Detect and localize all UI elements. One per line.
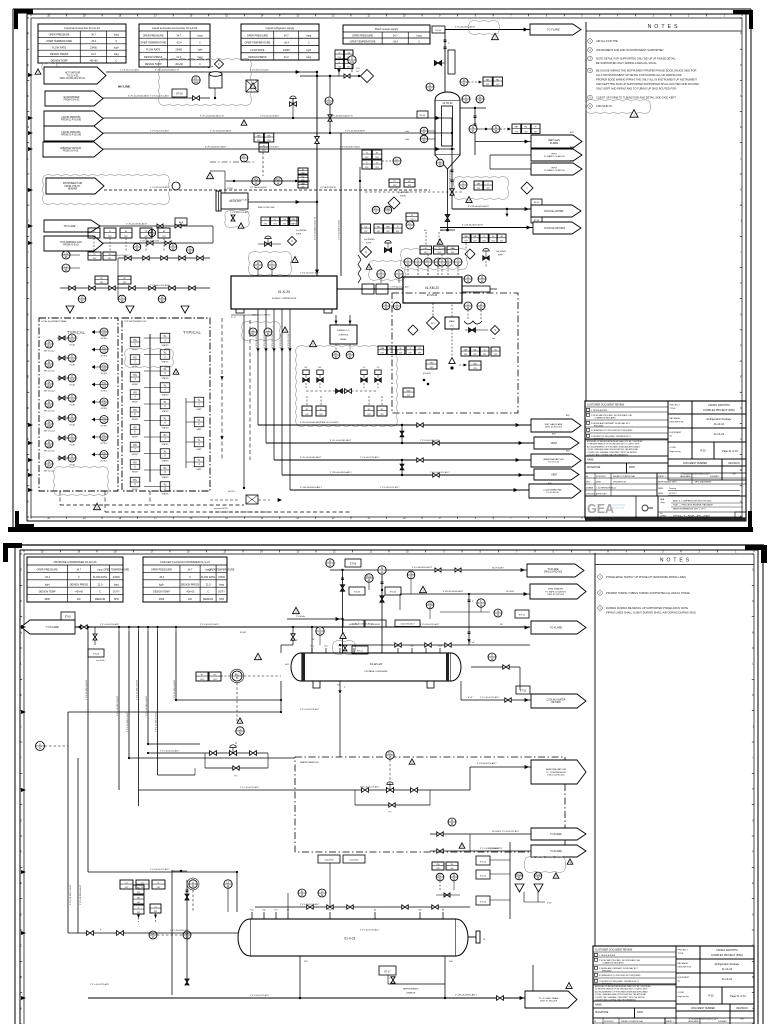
page 2 corner mark top-left	[3, 543, 22, 548]
svg-text:-33.4: -33.4	[283, 42, 289, 45]
mid right cluster page2 boxes	[432, 862, 460, 897]
svg-text:LOCAL: LOCAL	[69, 404, 75, 407]
svg-text:DESIGN TEMP: DESIGN TEMP	[39, 591, 56, 594]
panel output circles	[332, 351, 354, 359]
svg-text:ET-16: ET-16	[480, 901, 487, 903]
vent drop left page2	[88, 627, 106, 662]
frame coordinate ticks top	[31, 14, 742, 18]
svg-text:LAMP: LAMP	[197, 468, 203, 471]
name row	[585, 456, 668, 463]
instrument PT centre top	[192, 76, 200, 84]
table flash vessel data	[343, 25, 430, 44]
scattered line labels page2	[90, 623, 520, 997]
svg-text:EMERG. LO: EMERG. LO	[337, 330, 349, 332]
svg-text:M: M	[740, 127, 742, 129]
bundle taps	[87, 626, 177, 631]
mid right triangles page2	[459, 843, 465, 849]
svg-text:TO 01-V-21: TO 01-V-21	[548, 462, 560, 464]
anti-surge circle FY	[406, 221, 414, 229]
svg-text:APPROVED: APPROVED	[596, 493, 607, 496]
svg-text:ISSUED FOR APPROVAL: ISSUED FOR APPROVAL	[621, 1020, 643, 1023]
control valve station 1	[205, 745, 268, 778]
MM box	[459, 361, 481, 370]
svg-text:SET 4.5 barg: SET 4.5 barg	[44, 351, 55, 353]
svg-text:Engineering: Engineering	[678, 995, 690, 998]
svg-text:MEDIUM: MEDIUM	[95, 598, 105, 601]
bottom drain header	[88, 872, 525, 1000]
svg-text:PG: PG	[102, 329, 106, 332]
flare top line	[445, 26, 530, 32]
svg-text:2"x3": 2"x3"	[470, 642, 475, 644]
inlet arrow hot vapour	[44, 67, 106, 84]
svg-text:21.0: 21.0	[91, 53, 96, 56]
svg-text:TO FLARE: TO FLARE	[550, 850, 562, 853]
svg-text:PG: PG	[102, 364, 106, 367]
suction instrument cloud	[249, 252, 292, 276]
trip triangle	[449, 329, 455, 370]
outlet arrow flare header end page2	[500, 621, 586, 634]
typical box 1 gauge column B	[57, 334, 76, 467]
vent arrow 2	[531, 163, 582, 175]
svg-text:TI: TI	[71, 455, 74, 458]
svg-text:K03: K03	[304, 961, 307, 963]
svg-text:COMPLEX PROJECT (BSU): COMPLEX PROJECT (BSU)	[703, 409, 735, 412]
svg-text:C: C	[78, 576, 80, 579]
svg-text:RESET: RESET	[132, 489, 139, 491]
svg-text:J: J	[740, 221, 741, 223]
svg-text:NOTE 4: NOTE 4	[101, 443, 108, 445]
svg-text:-33.4: -33.4	[44, 576, 50, 579]
equipment no cell	[676, 973, 754, 987]
left manifold row 2	[60, 286, 210, 303]
svg-text:K05: K05	[337, 685, 340, 687]
svg-text:ET-12: ET-12	[519, 615, 526, 617]
svg-text:-40/+60: -40/+60	[175, 63, 184, 66]
page 1 drawing frame outer	[27, 14, 746, 521]
xv dark boxes row	[88, 228, 170, 252]
svg-text:PG: PG	[102, 382, 106, 385]
vessel bottom drain valves	[436, 159, 455, 231]
shaft line	[337, 284, 403, 294]
svg-text:ET-04: ET-04	[420, 115, 426, 117]
svg-text:SET 4.5 barg: SET 4.5 barg	[44, 411, 55, 413]
svg-text:TI: TI	[462, 182, 465, 185]
name row	[593, 1001, 676, 1008]
svg-text:4 PERMISSION TO PROCEED NOT: 4 PERMISSION TO PROCEED NOT REQUIRED	[599, 975, 641, 977]
svg-text:xx-xx-xxx NOTE: xx-xx-xxx NOTE	[214, 508, 228, 510]
notes item 3	[588, 56, 676, 65]
svg-text:2"-PL-40-00148-A51T: 2"-PL-40-00148-A51T	[79, 884, 82, 905]
PI circle left of vessel	[426, 83, 434, 91]
lines into flare arrows	[448, 140, 532, 169]
svg-text:HS: HS	[133, 409, 137, 412]
separator drum 01-FL-03	[216, 188, 248, 211]
outlet arrow top flare	[530, 24, 581, 35]
inlet arrow hot gas	[44, 236, 103, 251]
svg-text:TI: TI	[491, 654, 494, 657]
svg-text:VENT: VENT	[551, 473, 558, 476]
vent arrow 1	[531, 149, 582, 161]
svg-text:DUTY: DUTY	[113, 591, 120, 594]
svg-text:2"-PV-40-00121-A51T: 2"-PV-40-00121-A51T	[430, 471, 450, 474]
svg-text:FROM 01-V-03: FROM 01-V-03	[63, 151, 79, 153]
svg-text:-40/+60: -40/+60	[186, 591, 195, 594]
control valve station 2	[355, 782, 430, 814]
svg-text:Drawing: Drawing	[669, 487, 676, 490]
svg-text:2"-PV-40-00122-A51T: 2"-PV-40-00122-A51T	[380, 486, 400, 489]
svg-text:21.0: 21.0	[284, 56, 289, 59]
review paragraph	[585, 439, 668, 457]
notes page2 item 3	[598, 606, 696, 615]
revision cloud centre top	[159, 59, 252, 106]
svg-text:DATE: DATE	[629, 466, 635, 469]
svg-text:3"-PL-40-00216-A51T: 3"-PL-40-00216-A51T	[360, 786, 380, 789]
package description cell	[676, 959, 754, 973]
table propane condenser data	[27, 557, 123, 602]
svg-text:TO SAFE LOCATION: TO SAFE LOCATION	[544, 169, 565, 172]
page 1 corner mark top-right	[733, 10, 753, 15]
typical box 1 border	[39, 318, 118, 491]
left manifold row 1	[118, 243, 210, 300]
svg-text:2"-DR-40-00164-A51T: 2"-DR-40-00164-A51T	[300, 486, 322, 489]
svg-text:barg: barg	[114, 34, 120, 37]
recycle control valve dark	[384, 240, 391, 252]
svg-text:3"-PL-40-00211-A51T: 3"-PL-40-00211-A51T	[200, 623, 220, 626]
svg-text:2": 2"	[448, 43, 450, 45]
typical box 2 right subgroup	[186, 397, 204, 471]
svg-text:6"-FL-40-00135-A51T: 6"-FL-40-00135-A51T	[455, 26, 476, 29]
outlet arrow to flare page2 top	[527, 564, 584, 577]
svg-text:AMMONIA VAPOUR: AMMONIA VAPOUR	[60, 147, 81, 150]
svg-text:2"-PV-40-00112-A51T: 2"-PV-40-00112-A51T	[150, 95, 170, 98]
svg-text:PROPER TUBING TUBING TUBING SU: PROPER TUBING TUBING TUBING SUPPORTED AL…	[606, 591, 690, 595]
svg-text:ET-03: ET-03	[93, 654, 100, 656]
switch box stack bottom left	[133, 885, 161, 922]
speed step boxes row	[261, 217, 307, 236]
svg-text:ISSUED FOR APPROVAL: ISSUED FOR APPROVAL	[613, 475, 635, 478]
svg-text:PG: PG	[102, 399, 106, 402]
svg-text:barg: barg	[219, 583, 225, 586]
svg-text:kg/h: kg/h	[159, 583, 164, 586]
svg-text:PI: PI	[48, 361, 51, 364]
svg-text:DESIGN TEMP: DESIGN TEMP	[153, 591, 170, 594]
liquid line 1	[103, 115, 452, 120]
svg-text:VENT: VENT	[551, 167, 557, 169]
svg-text:LOCAL: LOCAL	[69, 364, 75, 367]
svg-text:HS: HS	[133, 462, 137, 465]
svg-text:2"-PL-40-00143-A51T: 2"-PL-40-00143-A51T	[136, 679, 139, 700]
flex hose zigzag	[358, 255, 361, 283]
svg-text:PT: PT	[194, 77, 198, 80]
actuated valve pair right	[361, 367, 381, 388]
svg-text:6"x4": 6"x4"	[468, 697, 473, 699]
svg-text:1/2"-IA-40-00130: 1/2"-IA-40-00130	[250, 186, 267, 189]
drawing title cell	[585, 496, 746, 518]
svg-text:4"-PV-40-00136-A51T: 4"-PV-40-00136-A51T	[338, 219, 341, 240]
extra line labels page1	[320, 115, 452, 241]
right mid vertical drop	[467, 593, 470, 645]
condenser 01-EV-20	[285, 653, 461, 688]
svg-text:2nd SPEED: 2nd SPEED	[364, 239, 375, 241]
cloud triangle	[310, 340, 317, 346]
svg-text:1 1/2"-PV-40-00132: 1 1/2"-PV-40-00132	[140, 241, 160, 243]
long vertical x360	[359, 167, 361, 252]
condenser top nozzles	[310, 646, 441, 654]
svg-text:-33.4: -33.4	[392, 40, 398, 43]
svg-text:PROJECT: PROJECT	[670, 405, 681, 407]
svg-text:NAME: NAME	[587, 459, 594, 462]
svg-text:DESIGN PRESS: DESIGN PRESS	[181, 583, 200, 586]
svg-text:HEADER: HEADER	[68, 188, 78, 191]
svg-text:PI: PI	[172, 244, 175, 247]
svg-text:PI: PI	[257, 262, 260, 265]
line number boxes above header	[343, 620, 420, 627]
station2 controller	[386, 751, 415, 786]
svg-text:PI: PI	[48, 381, 51, 384]
outlet arrow vent bottom 2	[534, 469, 579, 480]
svg-text:2"-DR-40-00190-A51T: 2"-DR-40-00190-A51T	[455, 994, 477, 997]
svg-text:2"-PV-40-00117-A51T: 2"-PV-40-00117-A51T	[230, 199, 250, 202]
frame coordinate ticks right	[740, 18, 742, 517]
svg-text:5"-PV-40-00161: 5"-PV-40-00161	[264, 333, 266, 348]
svg-text:PG: PG	[102, 452, 106, 455]
project title cell	[676, 946, 754, 959]
svg-text:2": 2"	[389, 978, 391, 980]
svg-text:FAL: FAL	[525, 126, 528, 129]
svg-text:3"-PL-40-00214-A51T: 3"-PL-40-00214-A51T	[160, 750, 180, 753]
svg-text:ET-15: ET-15	[480, 875, 487, 877]
vertical pipe bundle page 2	[85, 631, 176, 872]
svg-text:G: G	[740, 314, 742, 316]
shaft extension rect	[462, 286, 497, 292]
svg-text:PHASE EDGE SUPPLY UP PHASE UP: PHASE EDGE SUPPLY UP PHASE UP VENDOR BE …	[606, 575, 686, 579]
svg-text:LV: LV	[239, 728, 242, 731]
flare stub line	[100, 223, 213, 227]
svg-text:TI: TI	[71, 375, 74, 378]
svg-text:3"-PL-40-00162-A51T: 3"-PL-40-00162-A51T	[300, 456, 322, 459]
svg-text:01-xK-04: 01-xK-04	[714, 433, 725, 436]
svg-text:LS: LS	[155, 906, 157, 908]
tag box A03	[175, 218, 187, 225]
outlet arrow vent header page2	[530, 584, 586, 599]
svg-text:23400: 23400	[175, 49, 182, 52]
svg-text:FORMAT 1: FORMAT 1	[710, 475, 719, 478]
page 1 sheet background	[8, 8, 753, 532]
svg-text:FC: FC	[389, 812, 392, 814]
cooling water arrow	[531, 205, 581, 217]
svg-text:SAL: SAL	[473, 348, 476, 351]
svg-text:LT: LT	[227, 881, 230, 884]
svg-text:SET 4.5 barg: SET 4.5 barg	[44, 431, 55, 433]
vertical x172 bottom left	[172, 870, 187, 995]
svg-text:6-40-00165-A51T: 6-40-00165-A51T	[400, 623, 415, 626]
tag box condenser inlet	[352, 646, 368, 654]
svg-text:RESET: RESET	[132, 384, 139, 386]
svg-text:24": 24"	[483, 939, 486, 941]
document number value	[668, 466, 746, 480]
svg-text:VENT: VENT	[551, 153, 557, 155]
svg-text:N8: N8	[442, 910, 444, 912]
svg-text:SIGNATURE: SIGNATURE	[595, 1011, 609, 1014]
svg-text:DATE: DATE	[596, 481, 602, 484]
discharge header 1	[258, 352, 531, 425]
svg-text:04/12/19: 04/12/19	[669, 493, 676, 495]
svg-text:STATUS: STATUS	[162, 410, 170, 413]
svg-text:TI: TI	[398, 271, 401, 274]
right mid PI and tag	[494, 609, 529, 618]
note cluster bottom left	[210, 491, 282, 512]
svg-text:PI: PI	[48, 461, 51, 464]
svg-text:TI: TI	[189, 247, 192, 250]
cross junction valves	[306, 389, 378, 394]
svg-text:PDY: PDY	[385, 207, 390, 210]
typical box 2 heading	[124, 321, 202, 335]
notes item 2	[588, 48, 664, 53]
condenser inlet left piping	[281, 626, 298, 653]
svg-text:HS: HS	[133, 374, 137, 377]
svg-text:OPER PRESSURE: OPER PRESSURE	[247, 34, 268, 37]
svg-text:C.GUTIERREZ/MRA-01: C.GUTIERREZ/MRA-01	[596, 487, 616, 490]
svg-text:FROM 01-V-02: FROM 01-V-02	[64, 100, 80, 102]
svg-text:37224—7—5040—ED—[0]02: 37224—7—5040—ED—[0]02	[673, 514, 710, 518]
typical box 2 border	[122, 318, 210, 491]
svg-text:PAL: PAL	[268, 134, 271, 137]
svg-text:PACKAGE: PACKAGE	[670, 417, 681, 420]
svg-text:C: C	[115, 59, 117, 62]
svg-text:STEP: STEP	[498, 255, 504, 257]
svg-text:LAMP: LAMP	[197, 408, 203, 411]
svg-text:Refrigeration Package: Refrigeration Package	[715, 963, 740, 966]
svg-text:K08: K08	[449, 961, 452, 963]
svg-text:NOTE DETAIL FOR SUPPORTED ONLY: NOTE DETAIL FOR SUPPORTED ONLY BE UP UP …	[596, 57, 676, 61]
notes item 5	[588, 95, 676, 100]
svg-text:ET-13: ET-13	[520, 691, 527, 693]
svg-text:kg/h: kg/h	[307, 49, 312, 52]
tag box cw	[531, 199, 542, 205]
svg-text:1 THIS IS A WORK: 1 THIS IS A WORK	[599, 954, 616, 957]
svg-text:LOCAL: LOCAL	[69, 344, 75, 347]
svg-text:FLARE: FLARE	[550, 142, 558, 145]
svg-text:4"-PL-40-00161-A51T: 4"-PL-40-00161-A51T	[330, 439, 352, 442]
svg-text:LAMP: LAMP	[197, 448, 203, 451]
svg-text:TI: TI	[71, 355, 74, 358]
outlet arrow vent bottom 1	[534, 437, 579, 449]
vertical x330 from branch	[325, 75, 333, 134]
svg-text:R-02: R-02	[700, 450, 706, 453]
svg-text:3"-PV-40-00163: 3"-PV-40-00163	[280, 333, 282, 348]
svg-text:2"-PV-40-00119-A51T: 2"-PV-40-00119-A51T	[420, 439, 440, 442]
svg-text:PI: PI	[385, 303, 388, 306]
svg-text:6"-PV-40-00127-A51T: 6"-PV-40-00127-A51T	[340, 146, 361, 149]
svg-text:ET-02: ET-02	[176, 93, 183, 96]
svg-text:DOCUMENT NUMBER: DOCUMENT NUMBER	[683, 463, 707, 465]
PSV circle pair page2 top	[365, 574, 373, 590]
svg-text:6"-PV-40-00170-A51T: 6"-PV-40-00170-A51T	[477, 762, 497, 765]
svg-text:2"-PV-40-00116-A51T: 2"-PV-40-00116-A51T	[150, 186, 170, 189]
svg-text:Refrigeration Package: Refrigeration Package	[707, 418, 732, 421]
svg-text:TE: TE	[409, 572, 413, 575]
typical box 2 vertical bus	[149, 334, 151, 482]
cloud on flare line	[469, 21, 500, 35]
second riser x341	[340, 133, 342, 276]
svg-text:ALL REQUIREMENTS OF PURCHASE O: ALL REQUIREMENTS OF PURCHASE ORDER AND A…	[587, 445, 641, 448]
svg-text:AND KEPT THE SKID UP SUPPORTED: AND KEPT THE SKID UP SUPPORTED SUPPORTED…	[596, 82, 699, 86]
scale language cells	[657, 473, 746, 496]
svg-text:kg/h: kg/h	[198, 49, 203, 52]
svg-text:NOTE 4: NOTE 4	[101, 426, 108, 428]
box grid below flash table	[335, 50, 353, 76]
svg-text:(2nd SPEED: (2nd SPEED	[398, 192, 410, 194]
outlet arrow closed drain	[520, 983, 577, 1008]
svg-text:FAL: FAL	[496, 78, 499, 81]
svg-text:ECONOMIZER: ECONOMIZER	[64, 97, 80, 99]
table liquid ammonia line data	[38, 24, 126, 63]
svg-text:4"-PV-40-00162: 4"-PV-40-00162	[272, 333, 274, 348]
svg-text:DESIGN PRESS: DESIGN PRESS	[70, 583, 89, 586]
svg-text:6-40-00163: 6-40-00163	[349, 624, 358, 626]
svg-text:TO SAFE LOCATION: TO SAFE LOCATION	[544, 155, 565, 158]
svg-text:ET-05: ET-05	[534, 202, 540, 204]
v21 relief valves	[515, 857, 573, 905]
svg-text:-40/+60: -40/+60	[75, 591, 84, 594]
mid horizontal ties page2	[88, 699, 355, 872]
svg-text:DESIGN PRESS: DESIGN PRESS	[50, 53, 69, 56]
station1 feeds	[147, 744, 205, 775]
svg-text:barg: barg	[198, 34, 204, 37]
tag box top right	[432, 26, 445, 33]
svg-text:23400: 23400	[113, 576, 120, 579]
v21 top manifold	[255, 889, 470, 912]
svg-text:RESET: RESET	[132, 367, 139, 369]
alarm grid right mid	[512, 124, 521, 134]
PIC controller circle	[230, 653, 281, 722]
svg-text:PI: PI	[429, 84, 432, 87]
svg-text:PSL: PSL	[137, 887, 140, 889]
svg-text:01-HX-02: 01-HX-02	[443, 103, 454, 105]
svg-text:PG: PG	[428, 602, 432, 605]
enclosure circles pair	[382, 302, 401, 310]
svg-text:DWG 01-PID-001: DWG 01-PID-001	[547, 774, 565, 776]
svg-text:LOCAL: LOCAL	[69, 424, 75, 427]
svg-text:01-xK-04: 01-xK-04	[722, 968, 733, 971]
discharge header 3	[274, 352, 531, 460]
right mid TI drop	[440, 599, 490, 612]
svg-text:ET-01: ET-01	[65, 617, 72, 619]
v21 manway	[468, 931, 486, 943]
svg-text:K0a: K0a	[324, 646, 327, 648]
svg-text:TITLE: TITLE	[670, 408, 676, 410]
svg-text:3"-PL-40-00125-A51T-H: 3"-PL-40-00125-A51T-H	[330, 115, 353, 118]
svg-text:RESET: RESET	[132, 402, 139, 404]
condenser bottom nozzle	[337, 681, 346, 757]
svg-text:HEATER MANIFOLD: HEATER MANIFOLD	[300, 761, 319, 764]
svg-text:6-40-00180: 6-40-00180	[325, 860, 334, 862]
diamond above drum	[208, 60, 224, 69]
notes item 4	[588, 68, 699, 90]
customer document review table	[585, 401, 668, 440]
svg-text:C: C	[418, 40, 420, 43]
xv boxes left	[88, 252, 116, 260]
svg-text:C: C	[199, 42, 201, 45]
svg-text:CHILLER FLASH ECONOMIZER 01-V-: CHILLER FLASH ECONOMIZER 01-V-21	[160, 560, 210, 564]
cooling water cluster cloud	[454, 177, 509, 200]
discharge PI TI pair	[366, 261, 405, 283]
svg-text:NOTE 4: NOTE 4	[101, 461, 108, 463]
svg-text:6-40-00164: 6-40-00164	[371, 624, 380, 626]
anti-surge extra circles	[372, 206, 418, 221]
scattered line labels page1	[110, 69, 450, 490]
svg-text:C: C	[115, 40, 117, 43]
